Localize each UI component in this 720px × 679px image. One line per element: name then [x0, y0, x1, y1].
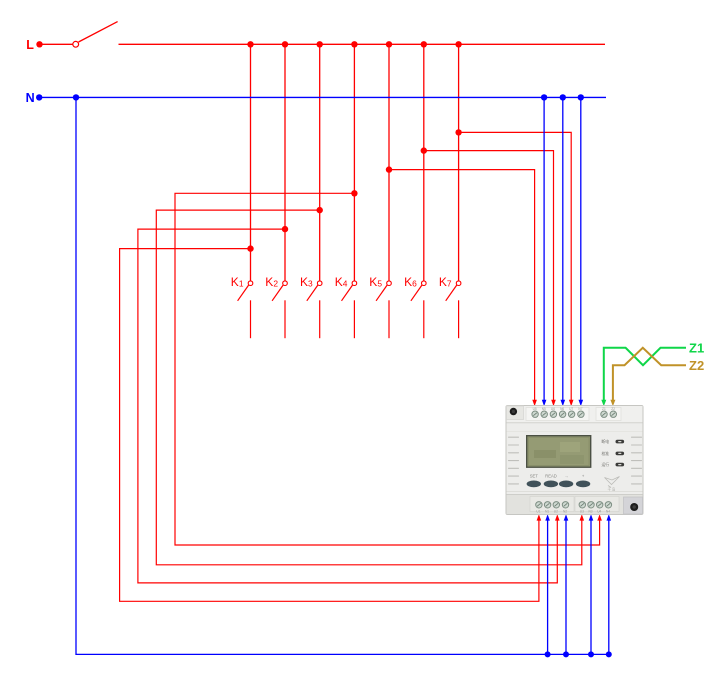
wire N riser to device bottom terminal 8 — [608, 517, 610, 655]
wire N bus — [39, 96, 606, 98]
arrowheads into device top — [532, 400, 615, 406]
wire N drop to device top terminal 6 — [580, 97, 582, 403]
wire L drop to K6 — [423, 44, 425, 281]
svg-text:Z2: Z2 — [611, 407, 615, 411]
wire L terminal to switch — [40, 43, 73, 45]
wire L bus — [119, 43, 606, 45]
button labels — [530, 474, 585, 479]
svg-text:N2: N2 — [563, 509, 567, 513]
top-left mounting ear — [507, 406, 524, 420]
bottom-right mounting ear — [624, 497, 643, 514]
arrowheads into device bottom — [537, 514, 612, 520]
node bottom bus junction dots — [545, 651, 612, 657]
wire N left loop to bottom bus — [76, 97, 609, 654]
svg-text:K2: K2 — [265, 275, 278, 289]
svg-text:U2: U2 — [554, 509, 558, 513]
svg-text:U7: U7 — [569, 407, 573, 411]
svg-text:Z2: Z2 — [689, 358, 704, 373]
svg-text:Z1: Z1 — [602, 407, 606, 411]
svg-text:READ: READ — [545, 474, 557, 479]
svg-text:N7: N7 — [578, 407, 582, 411]
relay contact K4 — [335, 275, 357, 338]
wire L drop to K4 — [353, 44, 355, 281]
svg-text:N1: N1 — [545, 509, 549, 513]
face seams — [507, 431, 643, 433]
svg-text:N6: N6 — [560, 407, 564, 411]
svg-text:U1: U1 — [536, 509, 540, 513]
wire K5 branch to device top terminal 1 — [389, 170, 535, 404]
LCD display — [527, 436, 591, 468]
svg-text:K6: K6 — [404, 275, 417, 289]
svg-text:校准: 校准 — [602, 451, 610, 456]
relay contact K5 — [369, 275, 391, 338]
wire Z2 sensor (orange) — [613, 348, 686, 404]
svg-text:U6: U6 — [551, 407, 555, 411]
svg-text:→: → — [564, 474, 568, 479]
wire L drop to K3 — [319, 44, 321, 281]
logo mark — [605, 477, 620, 492]
svg-text:K1: K1 — [231, 275, 244, 289]
switch S1 hinge circle — [73, 41, 79, 47]
relay contact K6 — [404, 275, 426, 338]
node L terminal dot — [36, 41, 42, 47]
svg-text:K5: K5 — [369, 275, 382, 289]
svg-text:K7: K7 — [439, 275, 452, 289]
LED indicators — [602, 439, 625, 467]
wire Z1 sensor (green) — [604, 348, 686, 404]
svg-text:U3: U3 — [580, 509, 584, 513]
wire L drop to K7 — [458, 44, 460, 281]
buttons — [527, 481, 591, 488]
wire K7 branch to device top terminal 5 — [459, 132, 572, 403]
bottom screw terminals — [536, 502, 612, 514]
bottom terminal tiny labels — [536, 509, 610, 513]
svg-text:运行: 运行 — [602, 462, 610, 467]
wire K3 branch to device bottom terminal 5 — [156, 210, 582, 565]
wire N riser to device bottom terminal 2 — [547, 517, 549, 655]
wire N riser to device bottom terminal 4 — [565, 517, 567, 655]
svg-text:L: L — [26, 38, 34, 52]
node N terminal dot — [36, 94, 42, 100]
top terminal strip — [507, 406, 643, 423]
node L bus junction dots — [247, 41, 461, 47]
svg-text:N3: N3 — [589, 509, 593, 513]
bottom terminal strip — [507, 495, 643, 515]
svg-text:N: N — [26, 91, 35, 105]
top screw terminals — [532, 407, 617, 418]
svg-text:K3: K3 — [300, 275, 313, 289]
svg-text:N4: N4 — [606, 509, 610, 513]
wire L drop to K5 — [388, 44, 390, 281]
relay contact K2 — [265, 275, 287, 338]
wire N drop to device top terminal 4 — [562, 97, 564, 403]
svg-text:N5: N5 — [542, 407, 546, 411]
relay contact K3 — [300, 275, 322, 338]
svg-text:千 岛: 千 岛 — [608, 487, 616, 492]
wire L drop to K1 — [250, 44, 252, 281]
wire L drop to K2 — [284, 44, 286, 281]
svg-text:断电: 断电 — [602, 439, 610, 444]
top terminal tiny labels — [533, 407, 616, 411]
wire N drop to device top terminal 2 — [543, 97, 545, 403]
wire K1 branch to device bottom terminal 1 — [120, 249, 539, 602]
left vent ribs — [509, 437, 519, 484]
svg-text:Z1: Z1 — [689, 341, 704, 356]
node N bus junction dots — [73, 94, 584, 100]
right vent ribs — [632, 437, 642, 484]
svg-text:SET: SET — [530, 474, 539, 479]
wire K2 branch to device bottom terminal 3 — [138, 229, 557, 583]
controller body — [506, 406, 643, 515]
wire K6 branch to device top terminal 3 — [424, 151, 554, 404]
svg-text:K4: K4 — [335, 275, 348, 289]
wire K4 branch to device bottom terminal 7 — [175, 193, 600, 545]
switch S1 lever — [79, 22, 118, 42]
relay contact K1 — [231, 275, 253, 338]
wire N riser to device bottom terminal 6 — [590, 517, 592, 655]
svg-text:U5: U5 — [533, 407, 537, 411]
svg-text:U4: U4 — [597, 509, 601, 513]
relay contact K7 — [439, 275, 461, 338]
node junction dots on drops — [247, 129, 461, 252]
